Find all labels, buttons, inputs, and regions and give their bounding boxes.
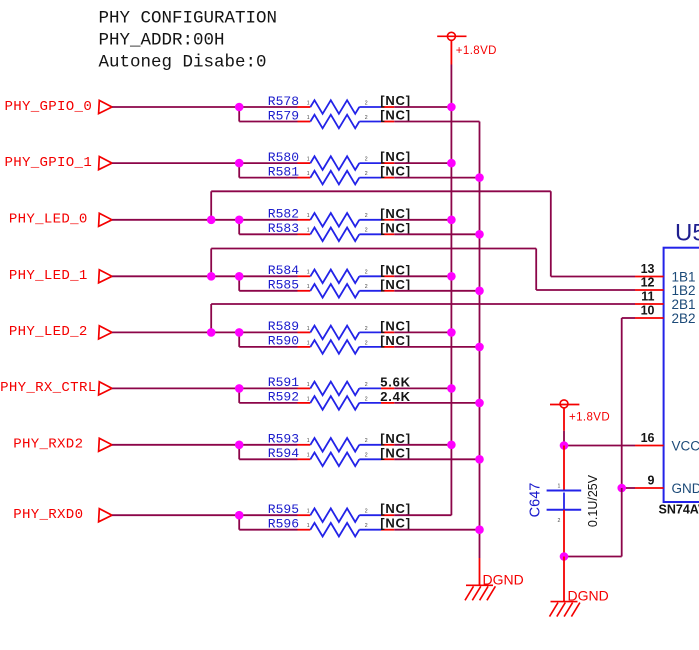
svg-text:DGND: DGND [483, 572, 524, 588]
junction PHY_LED_1 route tap [207, 272, 216, 281]
text note: configuration title [99, 9, 278, 73]
svg-text:R578: R578 [268, 94, 299, 109]
wire R580 output to bus [394, 162, 451, 164]
svg-text:Autoneg Disabe:0: Autoneg Disabe:0 [99, 53, 267, 73]
svg-text:1: 1 [307, 171, 310, 177]
svg-text:10: 10 [641, 304, 655, 318]
svg-text:2: 2 [365, 453, 368, 459]
svg-text:2: 2 [365, 228, 368, 234]
svg-text:2: 2 [365, 157, 368, 163]
svg-text:2B2: 2B2 [672, 311, 696, 326]
svg-text:1: 1 [307, 228, 310, 234]
junction GND net [617, 484, 626, 493]
resistor R585 [268, 277, 411, 298]
svg-text:1: 1 [307, 270, 310, 276]
resistor R580 [268, 149, 411, 170]
wire +1.8VD to VCC node [563, 431, 565, 446]
svg-text:5.6K: 5.6K [380, 374, 411, 389]
svg-text:[NC]: [NC] [380, 516, 411, 531]
junction R580 on +1.8VD bus [447, 159, 456, 168]
svg-text:R593: R593 [268, 432, 299, 447]
svg-text:U5: U5 [675, 219, 699, 246]
svg-text:2: 2 [365, 100, 368, 106]
junction R596 on DGND bus [475, 525, 484, 534]
resistor R594 [268, 445, 411, 466]
junction R589 on +1.8VD bus [447, 328, 456, 337]
junction PHY_LED_2 route tap [207, 328, 216, 337]
U5 pin 13 (1B1) [635, 262, 696, 284]
svg-text:PHY_RX_CTRL: PHY_RX_CTRL [0, 380, 96, 396]
junction R593 on +1.8VD bus [447, 441, 456, 450]
svg-text:2: 2 [365, 382, 368, 388]
svg-text:1: 1 [307, 523, 310, 529]
svg-text:11: 11 [641, 290, 654, 304]
junction at PHY_RXD2 branch [235, 441, 244, 450]
port PHY_GPIO_1 [5, 155, 112, 171]
wire PHY_LED_2 route to U5 pin 11 [211, 304, 635, 332]
power symbol +1.8VD (top) [437, 32, 497, 64]
svg-text:1: 1 [307, 438, 310, 444]
wire R581 output to bus [394, 177, 479, 179]
svg-text:9: 9 [648, 474, 655, 488]
U5 pin 11 (2B1) [635, 290, 696, 312]
junction R583 on DGND bus [475, 230, 484, 239]
U5 pin 10 (2B2) [635, 304, 696, 326]
svg-text:1: 1 [307, 453, 310, 459]
wire R590 output to bus [394, 346, 479, 348]
junction PHY_LED_0 route tap [207, 216, 216, 225]
svg-text:GNDB: GNDB [672, 481, 699, 496]
svg-text:[NC]: [NC] [380, 445, 411, 460]
port PHY_RXD2 [13, 437, 112, 453]
junction R591 on +1.8VD bus [447, 384, 456, 393]
wire R593 output to bus [394, 444, 451, 446]
junction at PHY_LED_1 branch [235, 272, 244, 281]
svg-text:2: 2 [365, 326, 368, 332]
svg-text:[NC]: [NC] [380, 501, 411, 516]
svg-text:1: 1 [307, 157, 310, 163]
wire branch to R583 [239, 220, 297, 235]
port PHY_LED_1 [9, 268, 112, 284]
svg-text:2: 2 [365, 284, 368, 290]
svg-text:[NC]: [NC] [380, 220, 411, 235]
resistor R591 [268, 374, 411, 395]
svg-text:[NC]: [NC] [380, 108, 411, 123]
svg-text:2: 2 [365, 270, 368, 276]
svg-text:R590: R590 [268, 334, 299, 349]
port PHY_LED_2 [9, 324, 112, 340]
svg-text:[NC]: [NC] [380, 93, 411, 108]
svg-text:PHY_GPIO_0: PHY_GPIO_0 [5, 99, 93, 115]
wire R582 output to bus [394, 219, 451, 221]
wire GND pin 9 to junction [622, 487, 635, 489]
resistor R581 [268, 164, 411, 185]
svg-text:[NC]: [NC] [380, 164, 411, 179]
svg-text:1: 1 [307, 100, 310, 106]
wire branch to R594 [239, 445, 297, 460]
svg-text:PHY_GPIO_1: PHY_GPIO_1 [5, 155, 93, 171]
svg-text:2: 2 [365, 213, 368, 219]
svg-text:PHY CONFIGURATION: PHY CONFIGURATION [99, 9, 278, 29]
svg-text:R592: R592 [268, 390, 299, 405]
svg-text:R581: R581 [268, 164, 299, 179]
svg-text:R595: R595 [268, 502, 299, 517]
U5 pin 16 (VCCB) [635, 431, 699, 453]
wire PHY_LED_1 route to U5 pin 12 [211, 249, 635, 291]
wire R595 output to bus [394, 514, 451, 516]
svg-text:2: 2 [365, 396, 368, 402]
wire R594 output to bus [394, 458, 479, 460]
svg-text:R584: R584 [268, 263, 299, 278]
wire U5 pin 10 (2B2) down to GND net [622, 318, 635, 488]
wire DGND vertical bus [479, 122, 481, 559]
wire R583 output to bus [394, 233, 479, 235]
svg-text:[NC]: [NC] [380, 277, 411, 292]
junction R581 on DGND bus [475, 173, 484, 182]
wire R584 output to bus [394, 275, 451, 277]
wire branch to R581 [239, 163, 297, 178]
svg-text:1: 1 [307, 115, 310, 121]
wire R589 output to bus [394, 331, 451, 333]
svg-text:SN74AVC4T245: SN74AVC4T245 [659, 503, 699, 517]
svg-text:PHY_LED_0: PHY_LED_0 [9, 212, 88, 228]
wire R579 output to bus [394, 121, 479, 123]
svg-text:PHY_RXD2: PHY_RXD2 [13, 437, 83, 453]
svg-text:1: 1 [307, 213, 310, 219]
junction VCC node [560, 441, 569, 450]
wire VCC node to U5 pin 16 [564, 445, 635, 447]
svg-text:+1.8VD: +1.8VD [456, 45, 497, 57]
svg-text:R591: R591 [268, 375, 299, 390]
resistor R578 [268, 93, 411, 114]
wire branch to R579 [239, 107, 297, 122]
wire PHY_RXD0 input [112, 514, 298, 516]
port PHY_RX_CTRL [0, 380, 112, 396]
wire PHY_LED_2 input [112, 331, 298, 333]
svg-text:12: 12 [641, 276, 655, 290]
svg-text:1: 1 [307, 382, 310, 388]
svg-text:1: 1 [307, 509, 310, 515]
port PHY_LED_0 [9, 212, 112, 228]
port PHY_GPIO_0 [5, 99, 112, 115]
svg-text:VCCB: VCCB [672, 438, 699, 453]
svg-text:R585: R585 [268, 278, 299, 293]
resistor R589 [268, 318, 411, 339]
svg-text:R589: R589 [268, 319, 299, 334]
junction at PHY_LED_0 branch [235, 216, 244, 225]
svg-text:R583: R583 [268, 221, 299, 236]
svg-text:2: 2 [365, 171, 368, 177]
wire PHY_RXD2 input [112, 444, 298, 446]
svg-text:[NC]: [NC] [380, 333, 411, 348]
wire +1.8VD vertical bus [450, 65, 452, 516]
resistor R582 [268, 206, 411, 227]
op-amp/IC U5 body [664, 219, 699, 502]
junction at PHY_RX_CTRL branch [235, 384, 244, 393]
svg-text:[NC]: [NC] [380, 318, 411, 333]
svg-text:1: 1 [307, 340, 310, 346]
junction R590 on DGND bus [475, 343, 484, 352]
power symbol +1.8VD (at C647) [550, 400, 610, 431]
resistor R593 [268, 431, 411, 452]
wire branch to R592 [239, 388, 297, 403]
junction R578 on +1.8VD bus [447, 103, 456, 112]
svg-text:2: 2 [365, 438, 368, 444]
wire PHY_RX_CTRL input [112, 387, 298, 389]
wire branch to R590 [239, 332, 297, 347]
junction R592 on DGND bus [475, 399, 484, 408]
svg-text:2: 2 [365, 509, 368, 515]
svg-text:R596: R596 [268, 517, 299, 532]
junction at PHY_GPIO_0 branch [235, 103, 244, 112]
capacitor C647 [528, 446, 601, 557]
svg-text:1: 1 [558, 484, 561, 490]
wire R591 output to bus [394, 387, 451, 389]
junction C647 bottom / DGND net [560, 552, 569, 561]
wire R596 output to bus [394, 529, 479, 531]
wire R592 output to bus [394, 402, 479, 404]
U5 pin 9 (GNDB) [635, 474, 699, 496]
svg-text:PHY_RXD0: PHY_RXD0 [13, 507, 83, 523]
U5 pin 12 (1B2) [635, 276, 696, 298]
svg-text:DGND: DGND [568, 588, 609, 604]
junction at PHY_GPIO_1 branch [235, 159, 244, 168]
svg-text:R582: R582 [268, 207, 299, 222]
junction R594 on DGND bus [475, 455, 484, 464]
junction at PHY_LED_2 branch [235, 328, 244, 337]
svg-text:2B1: 2B1 [672, 297, 696, 312]
junction at PHY_RXD0 branch [235, 511, 244, 520]
svg-text:R579: R579 [268, 108, 299, 123]
wire R578 output to bus [394, 106, 451, 108]
svg-text:2: 2 [365, 340, 368, 346]
wire PHY_GPIO_1 input [112, 162, 298, 164]
ground DGND (resistor bus) [465, 558, 524, 600]
resistor R590 [268, 333, 411, 354]
junction R584 on +1.8VD bus [447, 272, 456, 281]
svg-text:R594: R594 [268, 446, 299, 461]
svg-text:PHY_LED_2: PHY_LED_2 [9, 324, 88, 340]
junction R582 on +1.8VD bus [447, 216, 456, 225]
resistor R592 [268, 389, 411, 410]
resistor R595 [268, 501, 411, 522]
resistor R583 [268, 220, 411, 241]
resistor R579 [268, 108, 411, 129]
svg-text:+1.8VD: +1.8VD [569, 412, 610, 424]
svg-text:[NC]: [NC] [380, 431, 411, 446]
wire PHY_LED_0 route to U5 pin 13 [211, 191, 635, 276]
port PHY_RXD0 [13, 507, 112, 523]
resistor R596 [268, 516, 411, 537]
resistor R584 [268, 262, 411, 283]
svg-text:2.4K: 2.4K [380, 389, 411, 404]
junction R585 on DGND bus [475, 287, 484, 296]
wire branch to R585 [239, 276, 297, 291]
wire R585 output to bus [394, 290, 479, 292]
svg-text:13: 13 [641, 262, 655, 276]
svg-text:R580: R580 [268, 150, 299, 165]
svg-text:2: 2 [558, 518, 561, 524]
wire PHY_LED_1 input [112, 275, 298, 277]
svg-text:C647: C647 [528, 483, 544, 518]
svg-text:[NC]: [NC] [380, 262, 411, 277]
wire branch to R596 [239, 515, 297, 530]
svg-text:16: 16 [641, 431, 655, 445]
svg-text:2: 2 [365, 523, 368, 529]
svg-text:1B2: 1B2 [672, 283, 696, 298]
ground DGND (at C647) [550, 557, 609, 617]
wire GND net down to DGND [564, 488, 622, 557]
svg-text:PHY_LED_1: PHY_LED_1 [9, 268, 88, 284]
svg-text:0.1U/25V: 0.1U/25V [586, 474, 600, 527]
svg-text:1: 1 [307, 284, 310, 290]
IC U5 part number SN74AVC4T245 [659, 503, 699, 517]
svg-text:[NC]: [NC] [380, 149, 411, 164]
svg-text:PHY_ADDR:00H: PHY_ADDR:00H [99, 31, 225, 51]
wire PHY_GPIO_0 input [112, 106, 298, 108]
svg-text:1: 1 [307, 326, 310, 332]
wire PHY_LED_0 input [112, 219, 298, 221]
svg-text:1: 1 [307, 396, 310, 402]
svg-text:[NC]: [NC] [380, 206, 411, 221]
svg-text:2: 2 [365, 115, 368, 121]
